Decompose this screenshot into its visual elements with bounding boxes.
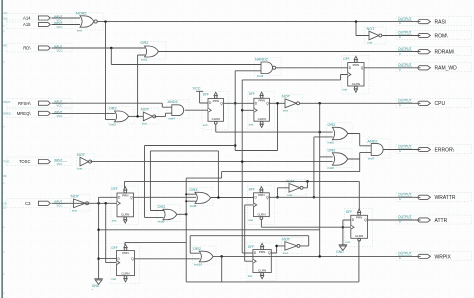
junction FF6.Q branch <box>276 196 279 199</box>
svg-text:MREQ\: MREQ\ <box>3 113 11 116</box>
svg-text:OUTPUT: OUTPUT <box>398 63 412 67</box>
svg-text:GND: GND <box>92 284 100 288</box>
svg-text:inst: inst <box>112 218 117 222</box>
svg-text:inst: inst <box>142 122 147 126</box>
svg-text:VCC: VCC <box>193 87 201 91</box>
svg-text:OR2: OR2 <box>158 205 166 209</box>
svg-text:NOT: NOT <box>71 195 80 199</box>
net WRPIX: U17 output to pin <box>213 255 421 257</box>
svg-text:inst3: inst3 <box>110 123 117 127</box>
svg-text:OUTPUT: OUTPUT <box>398 47 412 51</box>
net ERROR: AND U11 to ERROR pin <box>383 149 420 151</box>
svg-text:CLRN: CLRN <box>212 117 220 121</box>
not gate U13 (C3) <box>71 195 91 211</box>
wire NOT U4 to ROM pin <box>382 35 420 37</box>
svg-text:inst5: inst5 <box>328 141 335 145</box>
junction RAS/ROM branch <box>355 20 358 23</box>
svg-text:DFF: DFF <box>249 92 255 96</box>
net TOSC': NOT U12 to NOR U10 input B <box>90 161 332 163</box>
wire FF5 CLRN stub <box>358 240 360 241</box>
svg-text:RDRAM\: RDRAM\ <box>435 50 455 56</box>
svg-text:AND2: AND2 <box>168 100 178 104</box>
or gate U17 (WRPIX) <box>193 246 217 264</box>
wire NAND2 output to FF3.D <box>276 67 348 69</box>
svg-text:inst: inst <box>346 240 351 244</box>
svg-text:inst: inst <box>248 274 253 278</box>
wire U14 input stubs <box>186 194 196 201</box>
output pin WRATTR <box>396 192 472 201</box>
not gate U8 (CPU) <box>282 95 303 111</box>
svg-text:PRN: PRN <box>259 250 265 254</box>
svg-text:inst4: inst4 <box>168 117 175 121</box>
svg-text:inst: inst <box>283 251 288 255</box>
svg-text:inst: inst <box>343 88 348 92</box>
not gate U12 (TOSC) <box>77 153 95 169</box>
wire NOR U10 to AND U11 input B <box>360 153 372 159</box>
output pin RDRAM\ <box>396 47 472 56</box>
or gate U14 (3-in) <box>189 188 213 206</box>
junction FF1.Q at FF2 vert <box>234 102 237 105</box>
input pin RFSH\ <box>7 99 73 108</box>
svg-text:inst: inst <box>77 29 82 33</box>
wire AND2 output to FF1 clk <box>185 109 208 111</box>
svg-text:NOT: NOT <box>367 27 376 31</box>
junction PRN net at NOT U16 <box>306 180 309 183</box>
input pin A15 <box>7 20 73 29</box>
wire U5 net up to OR2 input B <box>138 55 145 116</box>
svg-text:GND: GND <box>336 250 344 254</box>
d flip-flop FF4 <box>111 186 139 225</box>
d flip-flop FF8 <box>247 243 276 281</box>
d flip-flop FF7 <box>111 244 140 284</box>
junction U14 stub A <box>185 193 187 195</box>
wire FF2.Q to NOT U8 <box>269 102 285 104</box>
svg-text:VCC: VCC <box>57 204 63 208</box>
svg-text:inst: inst <box>368 41 373 45</box>
wire U14 output loop to U15 input A <box>150 151 218 211</box>
svg-text:CLRN: CLRN <box>258 268 266 272</box>
wire NOR U9 output to AND U11 input A <box>348 134 372 146</box>
net C3' backbone vertical <box>99 197 117 278</box>
ground symbol GND1 (lower left) <box>94 278 103 280</box>
svg-text:CLRN: CLRN <box>257 212 265 216</box>
svg-text:CLRN: CLRN <box>352 82 360 86</box>
svg-text:inst6: inst6 <box>328 166 335 170</box>
input pin RD\ <box>7 44 73 53</box>
wire U14 output to FF6.D <box>210 197 253 199</box>
wire WRPIX branch to bottom bus <box>221 256 223 282</box>
wire FF5.D and clk feed <box>343 220 351 245</box>
svg-text:inst: inst <box>111 277 116 281</box>
svg-text:OR2: OR2 <box>193 247 201 251</box>
wire NOT U6 to AND2 input B <box>154 113 171 116</box>
svg-text:MREQ\: MREQ\ <box>17 111 32 116</box>
svg-text:OR2: OR2 <box>328 148 336 152</box>
wire FF6 clk feed <box>245 205 254 261</box>
svg-text:RFSH\: RFSH\ <box>18 101 31 106</box>
svg-text:A15: A15 <box>23 22 31 27</box>
or gate U9 <box>327 123 352 142</box>
wire MREQ to U5 input A <box>52 112 115 114</box>
and gate U7 <box>167 100 189 119</box>
junction WRPIX / CPU vert <box>318 255 321 258</box>
junction CPU branch down <box>318 102 321 105</box>
svg-text:OUTPUT: OUTPUT <box>398 31 412 35</box>
wire NOR U9 input B feed <box>314 137 333 197</box>
svg-text:RD\: RD\ <box>23 46 31 51</box>
wire FF1.Q to FF2.D <box>224 102 254 104</box>
svg-text:inst: inst <box>249 123 254 127</box>
wire RFSH to AND2 input A <box>52 103 172 107</box>
svg-text:VCC: VCC <box>57 114 63 118</box>
svg-text:PRN: PRN <box>356 216 362 220</box>
junction RD branch <box>110 47 113 50</box>
svg-text:inst: inst <box>288 193 293 197</box>
input pin MREQ\ <box>7 109 73 118</box>
svg-text:WRPIX: WRPIX <box>435 254 452 260</box>
svg-text:inst9: inst9 <box>158 220 165 224</box>
wire NOR2 output down to U5 input B <box>106 22 115 120</box>
svg-text:PRN: PRN <box>258 99 264 103</box>
junction FF2.Q branch down <box>276 102 279 105</box>
input pin C3 <box>7 199 73 208</box>
svg-text:DFF: DFF <box>249 188 255 192</box>
junction FF2 vert / DFF2.Q loop <box>234 144 237 147</box>
svg-text:OR2: OR2 <box>141 41 149 45</box>
not gate U4 (to ROM) <box>365 27 387 44</box>
junction U5 output / feedback up <box>136 115 139 118</box>
svg-text:PRN: PRN <box>258 193 264 197</box>
svg-text:CLRN: CLRN <box>258 117 266 121</box>
d flip-flop FF2 <box>248 91 275 129</box>
wire U5 output to NOT U6 <box>128 115 143 117</box>
svg-text:RAM_WD: RAM_WD <box>435 66 458 72</box>
output pin ATTR <box>396 215 472 224</box>
wire A15 to NOR2 <box>52 24 81 26</box>
svg-text:RFSH\: RFSH\ <box>3 101 11 104</box>
d flip-flop FF3 (RAM_WD) <box>342 56 369 95</box>
svg-text:NOT: NOT <box>77 153 86 157</box>
svg-text:inst7: inst7 <box>368 157 375 161</box>
wire FF2.Q net to NAND2 input B <box>235 71 277 151</box>
wire C3' branch to FF7 clk <box>106 203 117 262</box>
svg-text:inst8: inst8 <box>190 204 197 208</box>
svg-text:OUTPUT: OUTPUT <box>398 145 412 149</box>
wire PRN net down to FF5 PRN <box>358 181 360 210</box>
svg-text:inst10: inst10 <box>194 263 202 267</box>
svg-text:OR2: OR2 <box>328 123 336 127</box>
output pin ROM\ <box>396 31 472 40</box>
junction C3' FF7.D <box>97 257 100 260</box>
input pin TOSC <box>7 157 73 166</box>
svg-text:DFF: DFF <box>112 187 118 191</box>
wire U15 output to junction <box>177 213 187 215</box>
svg-text:VCC: VCC <box>57 104 63 108</box>
wire C3' to FF7.D <box>99 258 117 260</box>
sheet border (left edge bar) <box>1 0 2 298</box>
svg-text:NOT: NOT <box>282 94 291 98</box>
junction U14 stub C <box>185 200 187 202</box>
junction clock to FF2 <box>241 109 244 112</box>
svg-text:CLRN: CLRN <box>121 213 129 217</box>
wire NOT U16 output to FF4 PRN <box>125 181 360 188</box>
svg-text:0S\: 0S\ <box>3 175 7 178</box>
svg-text:DFF: DFF <box>248 245 254 249</box>
svg-text:OR3: OR3 <box>190 188 198 192</box>
svg-text:PRN: PRN <box>353 63 359 67</box>
wire clock to FF8.D <box>242 252 253 254</box>
input pin A14 <box>7 14 73 23</box>
wire A14 to NOR2 <box>52 17 81 19</box>
svg-text:TOSC: TOSC <box>19 159 31 164</box>
svg-text:CPU: CPU <box>435 101 446 107</box>
junction C3' long line <box>97 229 100 232</box>
or gate U10 <box>327 148 352 167</box>
junction U15 output node <box>185 213 188 216</box>
wire VCC to FF1.D <box>200 91 208 103</box>
svg-text:OUTPUT: OUTPUT <box>398 17 412 21</box>
wire branch to NOT U4 (ROM) <box>356 22 369 36</box>
wire FF4.Q to U14 <box>134 196 197 198</box>
junction U14 output node <box>217 196 220 199</box>
svg-text:inst: inst <box>78 167 83 171</box>
svg-text:PRN: PRN <box>122 193 128 197</box>
svg-text:NOT: NOT <box>141 108 150 112</box>
wire FF8.Q to NOT U18 <box>271 246 285 253</box>
not gate U18 <box>282 238 303 254</box>
svg-text:ERROR\: ERROR\ <box>435 147 455 153</box>
svg-text:DFF: DFF <box>346 210 352 214</box>
svg-text:NOR2: NOR2 <box>76 12 87 16</box>
wire CPU net vertical <box>319 103 321 256</box>
junction FF5 D/clk/GND node <box>342 226 345 229</box>
svg-text:inst: inst <box>248 218 253 222</box>
net feedback vertical x186 <box>185 178 187 282</box>
wire U18 output loop <box>190 236 309 254</box>
and gate U11 (ERROR) <box>367 139 390 158</box>
output pin CPU <box>396 98 472 107</box>
wire NOT U16 connections <box>278 181 308 197</box>
wire C3 to FF4 clk <box>52 202 118 204</box>
wire FF7.Q to U17 input B <box>135 258 200 260</box>
wire clock to FF2 clk <box>242 109 254 111</box>
d flip-flop FF6 <box>248 186 275 225</box>
net RDRAM: OR2 output to RDRAM pin <box>159 51 421 53</box>
wire U14 output junction vertical <box>217 151 219 198</box>
wire bottom bus <box>186 241 359 282</box>
net CPU: NOT U8 output to CPU pin <box>300 102 421 104</box>
wire NOR U10 output loop <box>186 159 360 178</box>
wire FF6 CLRN down/right <box>261 219 343 227</box>
junction CLRN net / CPU vert <box>318 131 321 134</box>
wire CPU vert tap to NOR U10 input A <box>320 156 333 158</box>
net RAS: NOR2 output to RAS pin <box>97 21 420 23</box>
svg-text:VCC: VCC <box>57 162 63 166</box>
svg-text:inst1: inst1 <box>141 58 148 62</box>
junction WRPIX branch down <box>220 255 223 258</box>
not gate U6 <box>141 108 159 124</box>
svg-text:inst: inst <box>203 123 208 127</box>
svg-text:RD\: RD\ <box>3 45 7 48</box>
svg-text:OUTPUT: OUTPUT <box>398 193 412 197</box>
svg-text:DFF: DFF <box>343 57 349 61</box>
svg-text:DFF: DFF <box>203 92 209 96</box>
wire RD branch down/right to NAND2 input A <box>111 48 261 65</box>
svg-text:OR2: OR2 <box>109 107 117 111</box>
or gate U5 (MREQ) <box>108 107 134 125</box>
junction C3' backbone <box>97 202 100 205</box>
svg-text:OUTPUT: OUTPUT <box>398 252 412 256</box>
d flip-flop FF5 (ATTR) <box>345 208 373 246</box>
or gate U15 <box>157 205 180 222</box>
net RAM_WD: FF3.Q to pin <box>364 67 421 69</box>
svg-text:ATTR: ATTR <box>435 218 448 224</box>
or gate U2 (RD) <box>140 42 166 60</box>
svg-text:OUTPUT: OUTPUT <box>398 99 412 103</box>
svg-text:DFF: DFF <box>112 246 118 250</box>
svg-text:C3: C3 <box>25 201 31 206</box>
junction C3' to FF7 clock branch <box>104 202 107 205</box>
left margin net stub labels <box>3 12 11 295</box>
svg-text:VCC: VCC <box>57 25 63 29</box>
output pin RAS\ <box>396 17 472 26</box>
wire FF2.Q loop to U15 input B <box>145 146 236 218</box>
svg-text:WRATTR: WRATTR <box>435 195 456 201</box>
output pin ERROR\ <box>396 145 472 154</box>
net TOSC clock backbone <box>242 75 348 254</box>
output pin RAM_WD <box>396 63 472 72</box>
svg-text:PRN: PRN <box>122 251 128 255</box>
svg-text:AND2: AND2 <box>367 139 377 143</box>
svg-text:NAND2: NAND2 <box>255 58 268 62</box>
not gate U16 <box>286 180 306 196</box>
svg-text:VCC: VCC <box>57 48 63 52</box>
wire FF1 CLRN down and right <box>216 124 333 132</box>
wire PRN net y242 <box>125 242 186 245</box>
svg-text:OUTPUT: OUTPUT <box>398 215 412 219</box>
net ATTR: FF5.Q to pin <box>368 219 421 221</box>
nor gate U1 (A14,A15) <box>76 13 104 30</box>
svg-text:inst: inst <box>72 209 77 213</box>
junction FF8.Q node <box>275 245 278 248</box>
svg-text:NOT: NOT <box>282 237 291 241</box>
svg-text:ROM\: ROM\ <box>435 33 449 39</box>
junction TOSC' / clock backbone <box>241 160 244 163</box>
ground symbol GND2 (near FF5) <box>339 244 348 246</box>
svg-text:inst2: inst2 <box>257 74 264 78</box>
svg-text:inst: inst <box>283 109 288 113</box>
wire RD to OR2 input A <box>52 47 145 49</box>
wire C3' long line <box>99 229 320 231</box>
svg-text:CLRN: CLRN <box>121 271 129 275</box>
net WRATTR: FF6.Q to pin <box>269 196 420 198</box>
junction RAS/vert <box>104 20 107 23</box>
svg-text:RAS\: RAS\ <box>435 20 447 26</box>
svg-text:PRN: PRN <box>213 99 219 103</box>
nand gate U3 <box>255 58 282 76</box>
svg-text:CLRN: CLRN <box>355 234 363 238</box>
d flip-flop FF1 <box>202 92 229 130</box>
junction WRATTR / U9 feed <box>313 196 316 199</box>
output pin WRPIX <box>396 251 472 260</box>
